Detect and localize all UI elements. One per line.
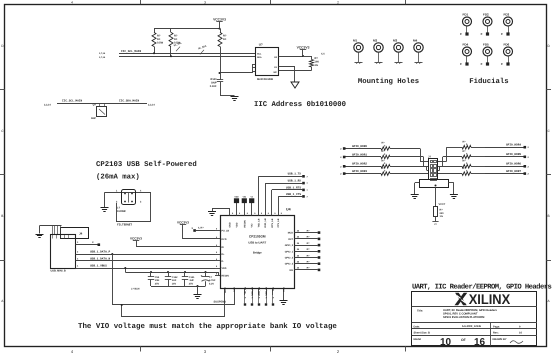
svg-text:F: F: [460, 32, 462, 36]
svg-text:GPIO_HDR6: GPIO_HDR6: [506, 163, 521, 166]
svg-text:U?: U?: [259, 42, 263, 46]
svg-text:3: 3: [204, 0, 206, 4]
svg-text:GPIO_HDR5: GPIO_HDR5: [506, 153, 521, 156]
svg-text:FD6: FD6: [504, 43, 510, 47]
svg-text:MCD: MCD: [288, 232, 294, 235]
svg-text:GPIO_1: GPIO_1: [285, 250, 294, 253]
svg-text:DCD: DCD: [222, 238, 227, 241]
svg-text:B: B: [1, 214, 3, 218]
svg-text:VCC3V3: VCC3V3: [130, 236, 142, 240]
svg-text:3,7,14: 3,7,14: [99, 56, 106, 59]
svg-text:PU_LB: PU_LB: [222, 230, 230, 233]
svg-text:M24C08 MN8: M24C08 MN8: [257, 78, 274, 81]
svg-text:F: F: [481, 62, 483, 66]
svg-text:RI_LB: RI_LB: [244, 287, 247, 294]
svg-text:6.3V: 6.3V: [209, 282, 214, 285]
svg-text:DRAWN BY: DRAWN BY: [493, 338, 507, 341]
svg-text:VIO: VIO: [243, 196, 247, 199]
svg-text:FD1: FD1: [463, 13, 469, 17]
svg-text:F: F: [460, 62, 462, 66]
svg-text:GPIO_HDR4: GPIO_HDR4: [506, 144, 521, 147]
svg-text:2,3,14: 2,3,14: [44, 103, 51, 106]
svg-text:M3: M3: [393, 38, 397, 42]
svg-text:2,3,14: 2,3,14: [148, 103, 155, 106]
svg-text:VCC3V3: VCC3V3: [177, 220, 189, 224]
svg-text:GND: GND: [229, 222, 232, 227]
svg-text:IIC_SDA_MAIN: IIC_SDA_MAIN: [119, 100, 139, 103]
svg-text:XILINX: XILINX: [469, 291, 511, 307]
svg-text:USB_1_DATA_P: USB_1_DATA_P: [90, 250, 110, 253]
svg-text:GPIO_HDR1: GPIO_HDR1: [352, 153, 367, 156]
svg-text:GPIO_HDR2: GPIO_HDR2: [352, 163, 367, 166]
svg-text:M1: M1: [353, 38, 357, 42]
svg-text:IIC_SCL_MAIN: IIC_SCL_MAIN: [62, 100, 82, 103]
svg-text:4, R?: 4, R?: [198, 226, 204, 229]
svg-text:M2: M2: [373, 38, 377, 42]
svg-text:VCC3V3: VCC3V3: [297, 45, 310, 49]
svg-text:GPIO_HDR0: GPIO_HDR0: [352, 145, 367, 148]
svg-text:USB to UART: USB to UART: [248, 241, 266, 245]
svg-text:DTR_LB: DTR_LB: [258, 287, 261, 296]
svg-text:3,7,14: 3,7,14: [99, 52, 106, 55]
svg-text:IIC Address 0b1010000: IIC Address 0b1010000: [254, 100, 346, 109]
svg-text:VDD: VDD: [234, 196, 239, 199]
svg-text:Rev:: Rev:: [493, 332, 499, 335]
svg-text:0.1UF: 0.1UF: [210, 85, 217, 88]
svg-text:D-: D-: [222, 260, 225, 263]
svg-text:VIO: VIO: [251, 223, 254, 227]
svg-text:The VIO voltage must match the: The VIO voltage must match the appropria…: [78, 322, 337, 331]
svg-text:Date:: Date:: [414, 325, 421, 328]
svg-text:VCC?: VCC?: [439, 203, 446, 206]
svg-text:GPIO_HDR3: GPIO_HDR3: [352, 170, 367, 173]
svg-text:USB_1_RX: USB_1_RX: [288, 180, 302, 183]
svg-text:U4: U4: [286, 208, 291, 212]
svg-text:Page:: Page:: [493, 325, 500, 328]
svg-text:DSR_LB: DSR_LB: [265, 287, 268, 296]
svg-text:FD2: FD2: [483, 13, 489, 17]
svg-text:RI: RI: [222, 246, 225, 249]
svg-text:0.5W: 0.5W: [157, 42, 164, 45]
svg-text:L? BLM: L? BLM: [131, 288, 140, 291]
svg-text:GND: GND: [233, 287, 236, 292]
svg-text:25V: 25V: [155, 282, 160, 285]
svg-text:SDA: SDA: [257, 56, 262, 59]
svg-text:REGIN: REGIN: [222, 275, 230, 278]
svg-text:VDD: VDD: [236, 222, 239, 227]
svg-text:F: F: [501, 32, 503, 36]
svg-text:Title:: Title:: [417, 310, 423, 313]
svg-text:F: F: [501, 62, 503, 66]
svg-text:1K: 1K: [223, 38, 226, 41]
svg-text:REGIN: REGIN: [243, 220, 246, 228]
svg-text:J4: J4: [79, 232, 83, 236]
svg-text:Mounting Holes: Mounting Holes: [358, 77, 419, 86]
svg-text:Sheet Size: B: Sheet Size: B: [414, 332, 431, 335]
svg-text:Fiducials: Fiducials: [469, 77, 508, 86]
svg-text:USB_1_TX: USB_1_TX: [288, 173, 302, 176]
svg-text:USB_MINI_B: USB_MINI_B: [51, 270, 66, 273]
svg-text:GPIO_3: GPIO_3: [285, 263, 294, 266]
svg-text:16: 16: [474, 337, 486, 348]
svg-text:1100MF: 1100MF: [117, 210, 127, 213]
svg-text:RXT: RXT: [288, 238, 293, 241]
svg-text:CTS_LB: CTS_LB: [277, 218, 280, 227]
svg-text:5-6-2009_12345: 5-6-2009_12345: [462, 325, 482, 328]
svg-text:10: 10: [440, 337, 452, 348]
svg-text:(26mA max): (26mA max): [96, 173, 140, 182]
svg-text:RTS_LB: RTS_LB: [271, 218, 274, 227]
svg-text:MX: MX: [290, 269, 294, 272]
svg-text:USB_1_RTS: USB_1_RTS: [286, 186, 301, 189]
svg-text:Model: Model: [414, 338, 422, 341]
svg-text:USB_1_CTS: USB_1_CTS: [286, 193, 301, 196]
svg-text:16V: 16V: [172, 282, 177, 285]
svg-text:USB_1_DATA_N: USB_1_DATA_N: [90, 257, 110, 260]
svg-text:FD4: FD4: [463, 43, 469, 47]
svg-text:FD3: FD3: [504, 13, 510, 17]
svg-text:GPIO_0: GPIO_0: [285, 244, 294, 247]
svg-text:Bridge: Bridge: [253, 251, 262, 255]
svg-text:Q?: Q?: [93, 104, 97, 107]
svg-text:VDD: VDD: [222, 267, 227, 270]
svg-text:25V: 25V: [189, 282, 194, 285]
svg-text:DNP: DNP: [91, 117, 96, 120]
svg-text:SUSPEND: SUSPEND: [214, 301, 227, 304]
svg-text:SUSP: SUSP: [224, 286, 227, 292]
svg-text:CP2103GM: CP2103GM: [249, 235, 266, 239]
svg-text:SP601 EVALUATION PLATFORM: SP601 EVALUATION PLATFORM: [443, 316, 485, 319]
svg-text:FILTERNET: FILTERNET: [117, 224, 132, 227]
svg-text:X.X: X.X: [321, 53, 325, 56]
svg-text:J?: J?: [428, 156, 431, 159]
svg-text:+: +: [201, 274, 203, 278]
svg-text:GPIO_2: GPIO_2: [285, 257, 294, 260]
svg-text:CP2103 USB Self-Powered: CP2103 USB Self-Powered: [96, 160, 197, 169]
svg-text:FD5: FD5: [483, 43, 489, 47]
svg-text:VCC3V3: VCC3V3: [213, 18, 226, 22]
svg-text:RXD_LB: RXD_LB: [264, 218, 267, 228]
svg-text:F: F: [481, 32, 483, 36]
svg-text:SCL: SCL: [257, 53, 262, 56]
svg-text:M4: M4: [413, 38, 417, 42]
svg-text:IIC_SCL_MAIN: IIC_SCL_MAIN: [121, 50, 141, 53]
svg-text:GPIO_HDR7: GPIO_HDR7: [506, 170, 521, 173]
svg-text:2: 2: [337, 0, 339, 4]
svg-text:4: 4: [71, 0, 73, 4]
svg-text:DCD_LB: DCD_LB: [251, 287, 254, 296]
svg-text:WC: WC: [273, 71, 277, 74]
svg-text:TXD_LB: TXD_LB: [257, 218, 260, 227]
svg-text:USB_1_VBUS: USB_1_VBUS: [90, 264, 107, 267]
svg-text:RXD: RXD: [283, 287, 286, 292]
svg-text:TXD: TXD: [272, 287, 275, 292]
svg-text:B: B: [548, 214, 550, 218]
svg-text:OF: OF: [461, 338, 466, 342]
